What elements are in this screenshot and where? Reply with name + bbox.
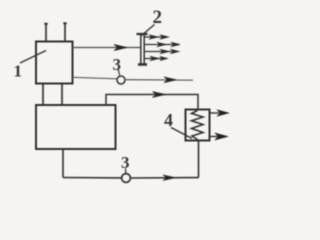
nozzle branch 1 bbox=[145, 35, 169, 39]
drum box bbox=[36, 105, 116, 149]
label 2 leader bbox=[142, 25, 155, 36]
boiler box 1 bbox=[36, 42, 73, 84]
riser from drum bbox=[106, 95, 198, 111]
spray header 2 bbox=[137, 34, 148, 65]
steam line A bbox=[73, 47, 141, 49]
pump 3 top circle bbox=[117, 76, 125, 84]
nozzle branch 4 bbox=[145, 56, 168, 60]
arrow on bottom line bbox=[163, 175, 176, 181]
feed line B left segment bbox=[73, 77, 118, 79]
pump 3 top leader bbox=[118, 69, 120, 76]
bottom return line left bbox=[63, 177, 122, 179]
connector left box1 to drum bbox=[42, 84, 44, 106]
svg-text:3: 3 bbox=[113, 55, 122, 74]
label 1 leader bbox=[20, 51, 46, 64]
bottom return line right bbox=[131, 177, 199, 179]
connector right box1 to drum bbox=[61, 84, 63, 106]
chimney line left bbox=[45, 24, 47, 42]
arrow on line C bbox=[153, 92, 167, 98]
arrow on line B bbox=[164, 77, 177, 83]
svg-text:4: 4 bbox=[164, 110, 173, 130]
svg-text:1: 1 bbox=[14, 62, 23, 81]
pump 3 bottom circle bbox=[122, 174, 131, 183]
label 4 leader bbox=[171, 128, 192, 139]
nozzle branch 3 bbox=[145, 49, 180, 53]
chimney cap left bbox=[44, 23, 47, 25]
outlet arrow top bbox=[210, 110, 229, 116]
heat exchanger box 4 bbox=[186, 110, 210, 141]
coil element bbox=[192, 111, 204, 140]
pump 3 bottom leader bbox=[125, 169, 127, 174]
downcomer from drum bbox=[62, 149, 64, 178]
svg-text:3: 3 bbox=[121, 153, 130, 172]
arrow on line A bbox=[114, 44, 128, 50]
feed line B right segment bbox=[125, 79, 193, 82]
svg-text:2: 2 bbox=[153, 7, 163, 28]
chimney line right bbox=[64, 23, 66, 42]
nozzle branch 2 bbox=[145, 42, 181, 46]
chimney cap right bbox=[63, 22, 66, 24]
riser into exchanger bbox=[198, 141, 200, 178]
outlet arrow bottom bbox=[210, 133, 228, 140]
